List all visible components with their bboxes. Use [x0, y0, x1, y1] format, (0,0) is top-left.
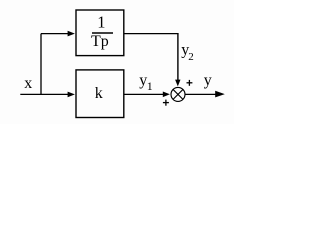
fraction bar: [92, 32, 113, 34]
block 1/Tp: [76, 10, 124, 56]
wire input horizontal: [20, 93, 69, 95]
block k: [76, 70, 124, 118]
wire k output to summer: [124, 93, 164, 95]
wire Tp output horizontal: [124, 33, 179, 35]
wire branch vertical: [40, 34, 42, 95]
arrowhead output: [215, 91, 225, 98]
summing junction: [171, 87, 185, 101]
svg-text:1: 1: [97, 13, 105, 32]
wire output: [185, 93, 216, 95]
arrowhead into k: [68, 92, 75, 98]
svg-text:Tp: Tp: [91, 33, 109, 50]
arrowhead into Tp: [68, 31, 75, 37]
svg-text:k: k: [95, 85, 103, 102]
arrowhead down into summer: [175, 80, 180, 87]
plus sign bottom: [163, 100, 169, 106]
summing junction cross: [173, 89, 183, 99]
plus sign top: [187, 80, 193, 86]
arrowhead into summer left: [163, 92, 170, 98]
wire branch to Tp: [41, 33, 69, 35]
svg-text:y: y: [204, 72, 212, 89]
wire down to summer: [177, 34, 179, 81]
svg-text:x: x: [24, 75, 32, 92]
